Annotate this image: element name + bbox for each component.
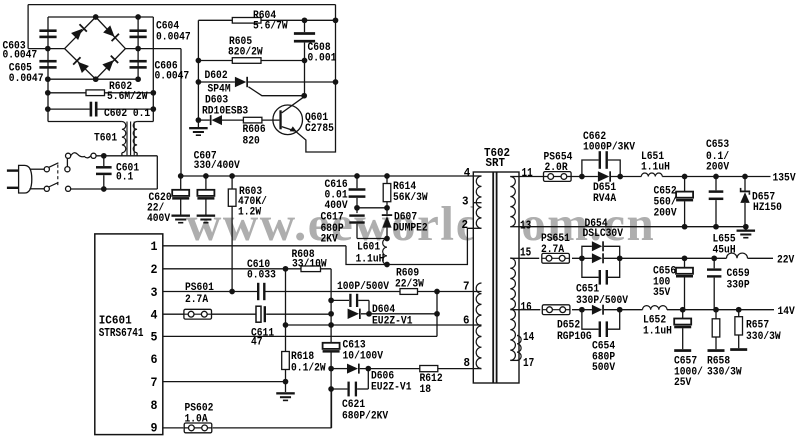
svg-text:5: 5	[151, 331, 158, 345]
svg-text:330/3W: 330/3W	[707, 367, 742, 379]
svg-text:RD10ESB3: RD10ESB3	[202, 106, 248, 118]
svg-text:0.033: 0.033	[247, 270, 276, 282]
svg-text:5.6M/2W: 5.6M/2W	[107, 91, 148, 103]
svg-text:35V: 35V	[653, 287, 671, 299]
svg-text:C653: C653	[706, 139, 729, 151]
svg-text:5.6/7W: 5.6/7W	[253, 21, 288, 33]
svg-text:1.0A: 1.0A	[185, 414, 209, 426]
svg-text:T601: T601	[94, 133, 117, 145]
svg-text:0.1/2W: 0.1/2W	[291, 363, 326, 375]
svg-text:7: 7	[151, 376, 158, 390]
svg-text:6: 6	[463, 314, 470, 328]
svg-text:C659: C659	[727, 268, 750, 280]
svg-text:200V: 200V	[654, 208, 678, 220]
svg-text:0.001: 0.001	[308, 53, 337, 65]
svg-text:10/100V: 10/100V	[343, 351, 384, 363]
svg-text:R657: R657	[746, 320, 769, 332]
svg-text:1000P/3KV: 1000P/3KV	[583, 142, 636, 154]
svg-text:8: 8	[151, 399, 158, 413]
svg-text:STRS6741: STRS6741	[99, 326, 144, 340]
svg-text:25V: 25V	[674, 377, 692, 389]
svg-text:18: 18	[420, 384, 432, 396]
svg-text:0.0047: 0.0047	[156, 32, 191, 44]
svg-text:L601: L601	[357, 242, 380, 254]
svg-text:100P/500V: 100P/500V	[337, 281, 390, 293]
svg-text:HZ150: HZ150	[753, 202, 782, 214]
svg-text:400V: 400V	[147, 213, 171, 225]
svg-text:22/3W: 22/3W	[395, 279, 424, 291]
svg-text:1.2W: 1.2W	[238, 207, 262, 219]
svg-text:EU2Z-V1: EU2Z-V1	[371, 382, 412, 394]
svg-text:C617: C617	[321, 212, 344, 224]
svg-text:SRT: SRT	[486, 157, 506, 170]
svg-text:330/400V: 330/400V	[194, 160, 241, 172]
svg-text:3: 3	[462, 195, 469, 209]
svg-text:820/2W: 820/2W	[228, 47, 263, 59]
svg-text:2: 2	[151, 263, 158, 277]
svg-text:1.1uH: 1.1uH	[356, 254, 385, 266]
svg-text:8: 8	[464, 356, 471, 370]
svg-text:11: 11	[522, 167, 533, 180]
svg-text:0.0047: 0.0047	[9, 73, 44, 85]
svg-text:EU2Z-V1: EU2Z-V1	[372, 316, 413, 328]
svg-text:0.0047: 0.0047	[3, 50, 38, 62]
svg-text:1: 1	[151, 240, 158, 254]
svg-text:33/10W: 33/10W	[292, 259, 327, 271]
svg-text:C2785: C2785	[305, 123, 334, 135]
svg-text:16: 16	[521, 301, 532, 314]
svg-text:4: 4	[151, 309, 158, 323]
svg-text:45uH: 45uH	[713, 245, 736, 257]
svg-text:2.7A: 2.7A	[541, 244, 565, 256]
svg-text:14V: 14V	[778, 306, 796, 318]
svg-text:0.0047: 0.0047	[155, 71, 190, 83]
svg-text:0.1: 0.1	[116, 172, 133, 184]
svg-text:D604: D604	[372, 304, 396, 316]
svg-text:14: 14	[523, 331, 534, 344]
svg-text:C651: C651	[576, 284, 599, 296]
svg-text:1.1uH: 1.1uH	[643, 326, 672, 338]
svg-text:2.0R: 2.0R	[545, 162, 569, 174]
svg-text:680P/2KV: 680P/2KV	[342, 411, 389, 423]
svg-text:C602 0.1: C602 0.1	[104, 108, 150, 120]
svg-text:3: 3	[151, 286, 158, 300]
svg-text:135V: 135V	[773, 173, 797, 185]
svg-text:4: 4	[464, 166, 471, 180]
svg-text:D602: D602	[205, 70, 228, 82]
svg-text:500V: 500V	[592, 362, 616, 374]
svg-text:PS601: PS601	[185, 282, 214, 294]
svg-text:2KV: 2KV	[321, 234, 339, 246]
svg-text:56K/3W: 56K/3W	[393, 192, 428, 204]
svg-text:6: 6	[151, 353, 158, 367]
svg-text:C621: C621	[342, 399, 365, 411]
svg-text:7: 7	[463, 280, 470, 294]
svg-text:9: 9	[151, 422, 158, 436]
svg-text:330P: 330P	[727, 280, 750, 292]
svg-text:47: 47	[251, 337, 263, 349]
svg-text:200V: 200V	[706, 162, 730, 174]
svg-text:15: 15	[520, 246, 531, 259]
svg-text:D652: D652	[557, 320, 580, 332]
svg-text:2: 2	[462, 218, 469, 232]
svg-text:22V: 22V	[777, 255, 795, 267]
svg-text:820: 820	[243, 136, 260, 148]
svg-text:DSLC30V: DSLC30V	[583, 228, 624, 240]
svg-text:R606: R606	[243, 124, 266, 136]
svg-text:RGP10G: RGP10G	[557, 331, 592, 343]
svg-text:2.7A: 2.7A	[185, 294, 209, 306]
svg-text:R618: R618	[291, 351, 314, 363]
svg-text:RV4A: RV4A	[593, 193, 617, 205]
svg-text:1.1uH: 1.1uH	[641, 162, 670, 174]
svg-text:400V: 400V	[325, 200, 349, 212]
svg-text:DUMPE2: DUMPE2	[393, 223, 428, 235]
svg-text:330/3W: 330/3W	[746, 331, 781, 343]
svg-text:17: 17	[523, 357, 534, 370]
